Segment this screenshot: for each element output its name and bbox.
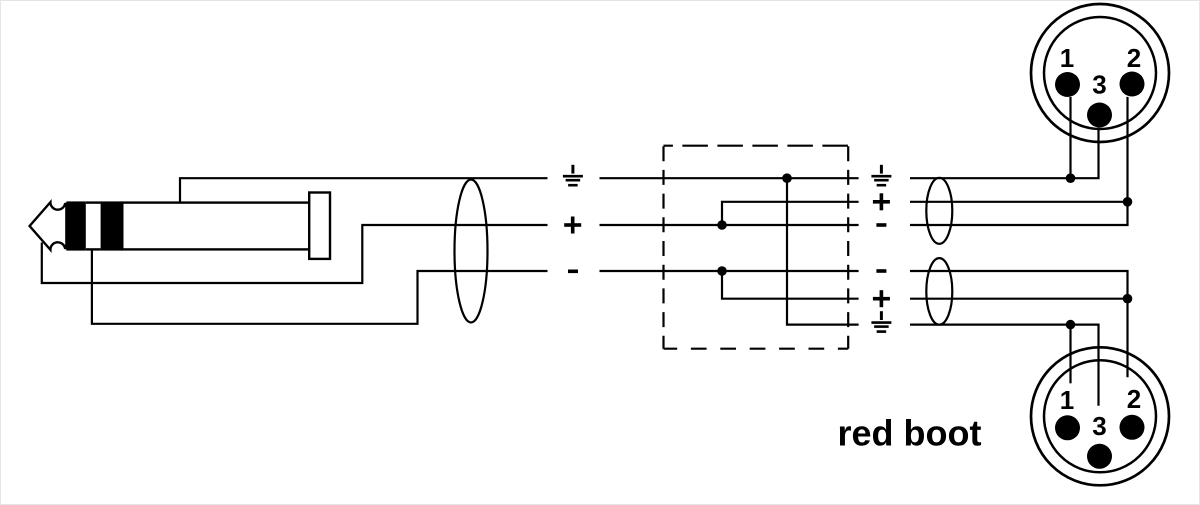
svg-text:2: 2 bbox=[1127, 384, 1141, 414]
node junction dot minus bbox=[717, 266, 727, 276]
svg-text:3: 3 bbox=[1092, 411, 1106, 441]
plus label left bbox=[564, 217, 581, 234]
jack plug J1 ring insulator band (black) bbox=[101, 201, 123, 250]
ground symbol left bbox=[563, 165, 583, 185]
node junction dot ground bbox=[782, 173, 792, 183]
XLR connector U1 outer circle bbox=[1031, 4, 1169, 142]
XLR U1 pin 2 bbox=[1120, 72, 1145, 97]
node XLR1 pin2 junction dot bbox=[1123, 197, 1133, 207]
wire plus jog to XLR1 plus bbox=[722, 202, 859, 225]
cable ellipse right bottom bbox=[926, 258, 952, 325]
XLR U2 pin 2 bbox=[1120, 415, 1145, 440]
wire XLR2 plus row bbox=[910, 298, 1128, 300]
minus label left bbox=[568, 270, 578, 274]
plus label right bottom bbox=[873, 290, 890, 307]
XLR connector U2 inner circle bbox=[1044, 360, 1156, 472]
jack plug J1 ring gap top edge bbox=[86, 201, 101, 203]
node junction dot plus bbox=[717, 220, 727, 230]
XLR U2 pin 1 bbox=[1055, 415, 1080, 440]
wire XLR1 minus row bbox=[910, 97, 1128, 225]
dashed junction box top edge bbox=[664, 145, 849, 147]
dashed junction box bottom edge bbox=[664, 348, 849, 350]
wire ground-link vertical bbox=[787, 178, 859, 324]
wire ring-to-minus-rail bbox=[92, 249, 548, 323]
dashed junction box left edge bbox=[662, 146, 664, 349]
wire XLR1 ground row bbox=[910, 128, 1099, 179]
node XLR1 pin1 junction dot bbox=[1066, 173, 1076, 183]
jack plug J1 tip insulator band (black) bbox=[66, 201, 85, 250]
XLR U1 pin 1 bbox=[1055, 72, 1080, 97]
wire XLR1 plus row bbox=[910, 201, 1128, 203]
plus label right top bbox=[873, 193, 890, 210]
wire ground row mid bbox=[600, 177, 859, 179]
wire XLR2 ground row bbox=[910, 325, 1099, 406]
wire plus row mid bbox=[600, 224, 859, 226]
ground symbol right bottom bbox=[871, 311, 891, 331]
wire minus jog to XLR2 plus bbox=[722, 271, 859, 299]
XLR connector U2 outer circle bbox=[1031, 347, 1169, 485]
jack plug J1 end cap bbox=[309, 193, 330, 259]
jack plug J1 ring gap bottom edge bbox=[86, 248, 101, 250]
cable ellipse right top bbox=[926, 178, 952, 244]
jack plug J1 sleeve body bbox=[122, 203, 309, 250]
svg-text:1: 1 bbox=[1060, 43, 1074, 73]
XLR U2 pin 3 bbox=[1087, 444, 1112, 469]
minus label right bottom bbox=[876, 269, 886, 273]
ground symbol right top bbox=[871, 165, 891, 185]
svg-text:1: 1 bbox=[1060, 385, 1074, 415]
dashed junction box right edge bbox=[847, 146, 849, 349]
svg-text:red boot: red boot bbox=[838, 413, 982, 454]
node XLR2 pin2 junction dot bbox=[1123, 294, 1133, 304]
wire XLR1 pin1 drop bbox=[1069, 97, 1071, 178]
node XLR2 pin1 junction dot bbox=[1066, 320, 1076, 330]
wire XLR2 pin1 drop bbox=[1069, 325, 1071, 384]
wire sleeve-to-ground-rail bbox=[180, 178, 548, 202]
wire minus row mid bbox=[600, 270, 859, 272]
wire tip-to-plus-rail bbox=[42, 225, 548, 283]
svg-text:3: 3 bbox=[1092, 69, 1106, 99]
wire XLR2 minus row bbox=[910, 271, 1128, 377]
minus label right top bbox=[876, 223, 886, 227]
cable ellipse left bbox=[455, 180, 488, 323]
svg-text:2: 2 bbox=[1127, 43, 1141, 73]
jack plug J1 tip bbox=[30, 202, 67, 250]
XLR connector U1 inner circle bbox=[1044, 17, 1156, 129]
XLR U1 pin 3 bbox=[1087, 103, 1112, 128]
